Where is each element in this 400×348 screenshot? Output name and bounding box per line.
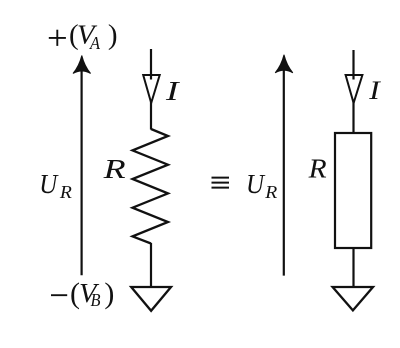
svg-text:R: R	[308, 153, 328, 183]
svg-text:R: R	[59, 182, 72, 202]
svg-text:U: U	[246, 169, 265, 199]
svg-text:U: U	[39, 169, 58, 199]
svg-text:A: A	[89, 33, 101, 53]
svg-text:B: B	[91, 290, 101, 310]
svg-text:R: R	[264, 182, 277, 202]
svg-text:R: R	[102, 154, 126, 184]
svg-text:): )	[104, 277, 114, 310]
svg-text:): )	[108, 19, 118, 51]
svg-text:I: I	[368, 76, 381, 105]
